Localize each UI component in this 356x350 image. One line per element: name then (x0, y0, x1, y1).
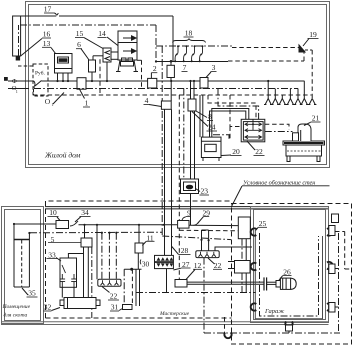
svg-text:для скота: для скота (4, 312, 28, 319)
svg-text:Жилой дом: Жилой дом (44, 151, 81, 160)
svg-text:7: 7 (183, 63, 187, 72)
svg-text:5: 5 (51, 235, 55, 244)
svg-text:21: 21 (312, 114, 320, 123)
svg-text:17: 17 (44, 5, 52, 14)
svg-text:10: 10 (49, 208, 57, 217)
svg-text:4: 4 (145, 96, 149, 105)
svg-text:1: 1 (85, 99, 89, 108)
svg-text:6: 6 (77, 40, 81, 49)
svg-text:26: 26 (283, 268, 291, 277)
svg-text:Гараж: Гараж (264, 308, 284, 315)
svg-text:О: О (45, 97, 51, 106)
svg-text:35: 35 (28, 289, 36, 298)
svg-text:22: 22 (214, 261, 222, 270)
svg-text:25: 25 (259, 219, 267, 228)
svg-text:19: 19 (309, 30, 317, 39)
svg-text:24: 24 (208, 123, 216, 132)
svg-text:31: 31 (111, 303, 119, 312)
svg-text:12: 12 (194, 261, 202, 270)
svg-text:Руб.: Руб. (35, 70, 46, 77)
svg-text:22: 22 (255, 147, 263, 156)
svg-text:28: 28 (181, 246, 189, 255)
svg-text:Помещение: Помещение (2, 304, 31, 310)
svg-text:3: 3 (212, 63, 216, 72)
svg-text:Ф: Ф (12, 78, 17, 85)
svg-text:1: 1 (16, 89, 18, 94)
svg-text:34: 34 (81, 208, 89, 217)
svg-text:20: 20 (232, 147, 240, 156)
svg-text:16: 16 (43, 30, 51, 39)
svg-text:15: 15 (76, 29, 84, 38)
svg-text:9: 9 (187, 209, 191, 218)
svg-text:22: 22 (110, 292, 118, 301)
svg-text:Мастерские: Мастерские (159, 311, 190, 317)
svg-text:13: 13 (43, 39, 51, 48)
svg-text:14: 14 (98, 29, 106, 38)
svg-text:32: 32 (44, 303, 52, 312)
svg-text:1: 1 (51, 102, 53, 107)
svg-text:2: 2 (153, 64, 157, 73)
svg-text:30: 30 (142, 260, 150, 269)
svg-text:18: 18 (185, 29, 193, 38)
svg-text:23: 23 (201, 187, 209, 196)
svg-text:8: 8 (208, 112, 212, 121)
svg-text:Условное обозначение стен: Условное обозначение стен (243, 179, 315, 186)
